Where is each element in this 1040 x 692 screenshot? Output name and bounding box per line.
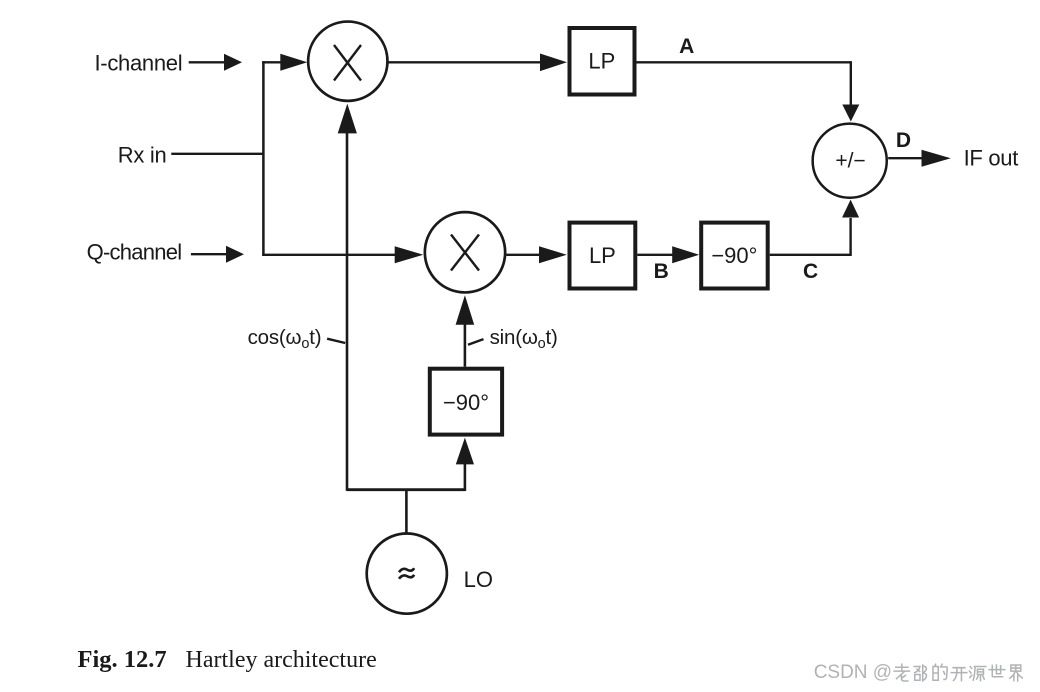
- svg-text:Rx in: Rx in: [118, 142, 167, 167]
- wire -90 bottom to mixer M2: [456, 295, 475, 366]
- svg-text:B: B: [654, 260, 669, 283]
- glyph yuan: [969, 667, 985, 681]
- svg-text:LP: LP: [588, 49, 615, 74]
- wire I-channel arrow: [189, 54, 242, 71]
- svg-text:C: C: [803, 260, 818, 283]
- glyph shi: [989, 665, 1005, 677]
- LO oscillator circle: [367, 534, 447, 614]
- glyph jie: [1010, 665, 1023, 681]
- glyph de: [933, 664, 947, 680]
- svg-text:Hartley architecture: Hartley architecture: [186, 647, 377, 673]
- wire LO stem: [405, 490, 408, 533]
- svg-text:−90°: −90°: [711, 243, 757, 268]
- wire LO cos feed to mixer M1: [338, 104, 357, 491]
- wire LO bus to -90 bottom: [456, 438, 474, 491]
- svg-text:Q-channel: Q-channel: [87, 240, 182, 265]
- svg-text:cos(ωot): cos(ωot): [248, 326, 322, 352]
- mixer M2: [425, 212, 505, 292]
- svg-text:CSDN @: CSDN @: [814, 662, 892, 683]
- svg-text:LO: LO: [464, 567, 493, 592]
- mixer M1: [308, 22, 387, 101]
- wire LP1 to summer: [637, 62, 860, 121]
- glyph shao: [914, 665, 926, 681]
- wire LO bus horizontal: [347, 488, 465, 491]
- caption Fig. 12.7 Hartley architecture: [78, 646, 377, 673]
- svg-text:IF out: IF out: [964, 145, 1019, 170]
- wire summer to IF out: [888, 150, 951, 167]
- svg-text:−90°: −90°: [443, 390, 489, 415]
- wire trunk vertical: [262, 61, 265, 256]
- svg-text:D: D: [896, 129, 911, 152]
- watermark CJK glyphs: [894, 664, 1022, 681]
- LP filter 2 box: [570, 223, 636, 289]
- wire trunk to mixer M2: [262, 246, 423, 263]
- svg-text:Fig. 12.7: Fig. 12.7: [78, 646, 167, 673]
- phase shifter -90 box (LO path): [430, 369, 502, 435]
- wire Q-channel arrow: [191, 246, 244, 263]
- wire LP2 to -90 top: [637, 246, 699, 263]
- svg-text:I-channel: I-channel: [95, 51, 183, 76]
- wire mixer M2 to LP2: [506, 246, 567, 263]
- glyph kai: [951, 668, 967, 681]
- tick sin label: [468, 339, 484, 345]
- svg-text:+/−: +/−: [835, 150, 865, 173]
- phase shifter -90 box (signal path): [701, 223, 768, 289]
- LP filter 1 box: [570, 28, 635, 95]
- tick cos label: [327, 339, 345, 343]
- wire -90 top to summer: [770, 200, 859, 255]
- svg-text:LP: LP: [589, 243, 616, 268]
- wire mixer M1 to LP1: [389, 54, 568, 72]
- svg-text:sin(ωot): sin(ωot): [490, 326, 558, 352]
- wire trunk to mixer M1: [262, 54, 307, 71]
- summer +/- circle: [813, 124, 887, 198]
- svg-text:A: A: [679, 35, 694, 58]
- glyph lao: [894, 664, 909, 681]
- wire Rx in horizontal: [171, 153, 264, 155]
